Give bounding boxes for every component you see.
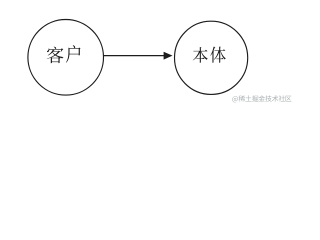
- node label 本: [193, 47, 208, 63]
- node label 体: [210, 47, 226, 63]
- node: 客户 circle: [28, 20, 104, 96]
- watermark 稀土掘金技术社区: [232, 95, 291, 102]
- wire: arrow shaft 客户->本体: [104, 55, 165, 57]
- node: 本体 circle: [175, 21, 248, 94]
- arrowhead: [164, 52, 173, 60]
- node label 客: [47, 47, 64, 64]
- node label 户: [66, 45, 81, 63]
